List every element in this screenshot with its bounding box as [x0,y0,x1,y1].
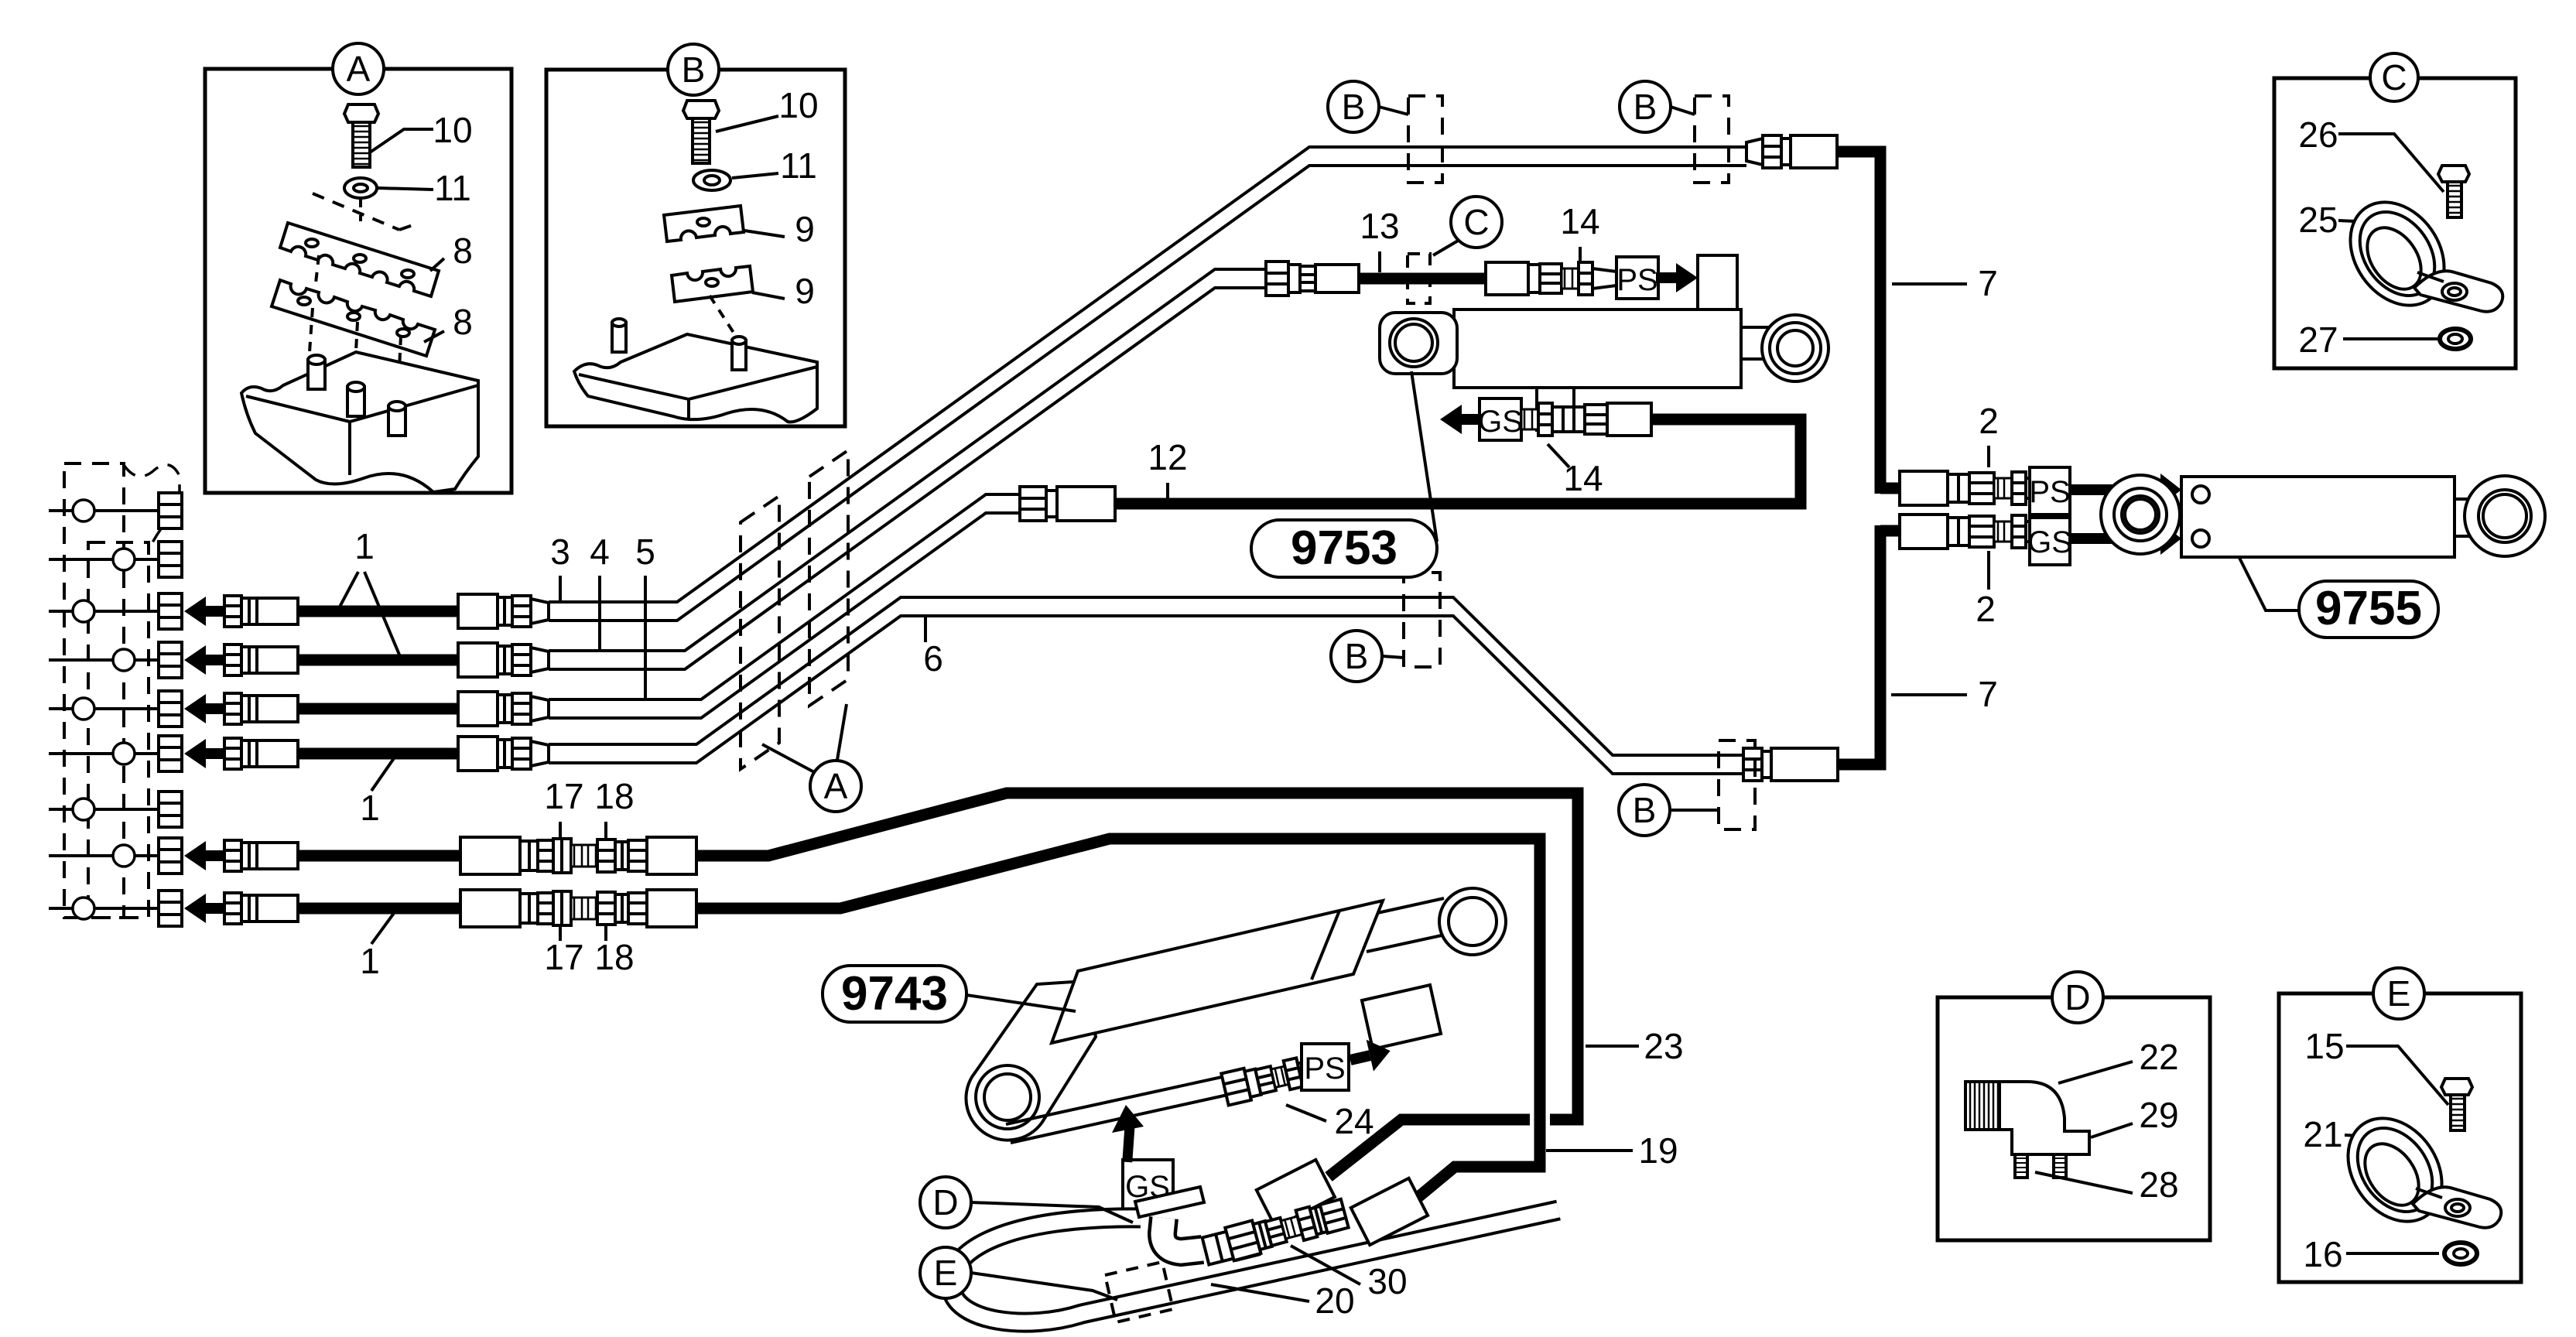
svg-text:B: B [1342,87,1366,127]
detail box B circle [668,44,719,95]
cylinder 9743 [966,888,1506,1140]
PS box 9743 [1302,1044,1349,1090]
label 27 (C) [2298,320,2437,360]
label 4 [590,532,610,651]
hose 1 assembly row3 with fittings [184,692,549,726]
label 14 lower [1548,444,1603,498]
svg-text:29: 29 [2139,1095,2178,1135]
label 7 upper [1892,263,1998,303]
svg-text:22: 22 [2139,1037,2178,1077]
svg-text:D: D [2065,977,2090,1017]
hose 12 left fitting [1020,487,1115,521]
svg-text:20: 20 [1315,1281,1354,1321]
bolt 15 (E) [2441,1079,2472,1130]
clamp 21 (E) [2328,1100,2501,1240]
svg-text:PS: PS [1304,1051,1345,1086]
mount base with studs (A) [241,352,478,492]
label 23 [1586,1026,1684,1066]
PS arrow 9753 [1656,263,1698,292]
label 17 row6 [544,925,583,977]
svg-text:25: 25 [2298,200,2338,240]
label 1 rows5-6 [360,907,399,981]
label 13 [1360,206,1399,272]
label 1 rows3-4 [360,751,399,828]
clamp 25 (C) [2331,184,2502,323]
clamp position E on tube 20 (dashed) [1105,1262,1173,1322]
detail box C circle [2370,53,2418,101]
label 8 upper (A) [430,231,473,271]
clamp half 8 lower (A) [272,280,435,356]
svg-text:11: 11 [780,145,817,186]
svg-text:E: E [934,1253,958,1293]
label 2 upper [1979,401,1999,467]
fitting 2 upper chain [1900,471,2030,505]
svg-text:18: 18 [594,937,634,977]
mount base with studs (B) [574,296,817,422]
hose assembly row5 with couplings 17/18 [184,837,696,874]
svg-text:15: 15 [2304,1026,2344,1066]
tube 4 (row2 tail to hose 13) [549,269,1266,669]
label 9 lower (B) [752,271,815,311]
bolt 10 (A) [344,104,378,167]
svg-text:9743: 9743 [841,967,948,1021]
svg-text:18: 18 [594,776,634,816]
clamp position C (dashed) [1408,254,1430,303]
detail box A frame [205,69,511,493]
cylinder 9753 [1380,255,1829,430]
PS arrow 9755 [2070,474,2181,506]
label 21 (E) [2303,1114,2376,1154]
hose 23 end socket [1257,1160,1335,1227]
label 11 (A) [378,168,471,208]
callout circle B3 [1331,631,1404,682]
PS stub corner 9755 [1880,483,1900,494]
label 15 (E) [2304,1026,2448,1105]
detail box E circle [2373,968,2424,1019]
svg-text:7: 7 [1978,263,1998,303]
elbow fitting 22 (D) [1965,1082,2089,1178]
label 1 rows1-2 [338,526,399,655]
callout circle B1 [1328,81,1408,132]
label 14 upper [1560,201,1599,261]
tube 3 (row1 tail to top line) [549,147,1746,621]
GS arrow 9755 [2070,522,2181,555]
clamp half 8 upper (A) [280,223,439,296]
hose 1 assembly row4 with fittings [184,737,549,771]
washer 11 (A) [344,178,377,198]
fitting 14 upper chain [1486,262,1616,295]
label 16 (E) [2303,1234,2439,1274]
label 9743 [823,966,1076,1022]
callout circle B2 [1620,81,1695,132]
svg-text:1: 1 [360,941,380,981]
svg-text:10: 10 [778,85,818,125]
label 9753 [1251,371,1437,577]
label 6 [923,617,943,679]
GS arrow 9743 [1112,1105,1144,1162]
hose 23 path [696,793,1578,1177]
washer 11 (B) [693,170,730,190]
clamp position B2 (dashed) [1695,96,1729,183]
hose 13 left fitting [1266,262,1359,296]
callout circle E [920,1247,1117,1300]
svg-text:17: 17 [544,776,583,816]
svg-text:23: 23 [1644,1026,1683,1066]
svg-text:C: C [1463,202,1489,242]
svg-text:GS: GS [1478,405,1523,439]
hose 1 assembly row1 with fittings [184,594,549,628]
hose 1 assembly row2 with fittings [184,643,549,677]
washer 27 (C) [2440,329,2471,349]
svg-text:4: 4 [590,532,610,572]
svg-text:B: B [682,50,706,90]
tube 20 [951,1210,1558,1322]
fitting 30 chain [1225,1178,1428,1260]
detail box B frame [546,70,845,426]
svg-text:C: C [2381,57,2407,97]
svg-text:B: B [1633,790,1657,830]
elbow fitting D at GS port [1135,1187,1259,1267]
tube 5 (row3 tail to hose 12) [549,494,1020,718]
svg-text:30: 30 [1367,1261,1407,1301]
svg-text:D: D [932,1182,958,1222]
svg-text:3: 3 [550,532,570,572]
svg-text:A: A [347,49,371,89]
label 28 (D) [2035,1164,2179,1205]
svg-text:1: 1 [360,788,380,828]
svg-text:9753: 9753 [1291,521,1397,575]
svg-text:28: 28 [2139,1164,2178,1205]
label 24 [1286,1101,1374,1141]
svg-text:17: 17 [544,937,583,977]
GS box 9753 [1478,398,1523,440]
label 5 [635,532,655,700]
GS box 9755 [2027,518,2072,565]
detail box D frame [1938,997,2210,1240]
svg-text:9: 9 [795,271,815,311]
label 11 (B) [732,145,817,186]
fitting 14 lower chain [1521,403,1651,436]
label 7 lower [1891,674,1998,714]
label 17 row5 [544,776,583,839]
callout circle A [762,704,861,812]
fitting at hose 6 end [1743,748,1838,781]
label 20 [1211,1281,1355,1321]
fitting 2 lower chain [1900,515,2030,549]
clamp half 9 lower (B) [672,266,753,302]
svg-text:PS: PS [1616,263,1657,297]
label 3 [550,532,570,603]
bolt 26 (C) [2438,166,2469,217]
callout circle C small [1433,197,1502,255]
bolt 10 (B) [683,101,719,163]
detail box D circle [2052,972,2103,1023]
svg-text:27: 27 [2298,320,2338,360]
svg-text:PS: PS [2029,475,2070,509]
label 2 lower [1976,551,1996,629]
clamp positions A (dashed) [741,450,848,769]
svg-text:10: 10 [433,110,472,150]
GS box 9743 [1123,1160,1173,1209]
svg-text:1: 1 [354,526,375,566]
svg-text:GS: GS [2027,525,2072,559]
label 18 row5 [594,776,634,839]
hose 12 thick path [1115,419,1801,504]
PS arrow 9743 [1346,1035,1394,1076]
svg-text:9755: 9755 [2315,582,2422,635]
svg-text:8: 8 [453,302,473,342]
GS stub corner 9755 [1880,525,1900,537]
clamp position B1 (dashed) [1408,96,1442,183]
svg-text:11: 11 [434,168,471,208]
fitting 24 [1221,1052,1322,1106]
detail box A circle [333,43,384,94]
svg-text:B: B [1345,636,1369,676]
label 19 [1546,1130,1678,1171]
clamp half 9 upper (B) [664,206,744,241]
label 8 lower (A) [424,302,473,342]
svg-text:8: 8 [453,231,473,271]
svg-text:12: 12 [1148,437,1187,477]
cylinder 9755 [2101,475,2545,557]
svg-text:14: 14 [1560,201,1599,241]
svg-text:24: 24 [1334,1101,1374,1141]
callout circle B4 [1619,785,1719,836]
detail box C frame [2274,78,2516,368]
label 18 row6 [594,925,634,977]
label 29 (D) [2091,1095,2179,1137]
label 25 (C) [2298,200,2372,240]
svg-text:7: 7 [1978,674,1998,714]
GS arrow 9753 [1440,405,1482,434]
tube to fitting 24 [1006,1075,1231,1143]
svg-text:14: 14 [1563,458,1603,498]
svg-text:B: B [1634,87,1657,127]
PS box 9753 [1616,257,1658,299]
label 22 (D) [2058,1037,2179,1083]
hose 7 upper thick path [1837,152,1880,494]
svg-text:26: 26 [2298,115,2338,155]
label 12 [1148,437,1187,499]
tube 6 (row4 tail, hose 6 run to fitting) [549,597,1743,774]
hose 7 lower thick path [1838,525,1880,764]
fitting at top line end [1746,135,1837,168]
label 10 (B) [716,85,819,132]
svg-text:19: 19 [1638,1130,1678,1171]
manifold valve block (dashed) with ports [49,463,182,926]
label 26 (C) [2298,115,2444,192]
svg-text:A: A [824,766,848,806]
hose 19 path [696,839,1540,1197]
label 30 [1291,1246,1408,1301]
svg-text:6: 6 [923,638,943,679]
alignment dashes (A) [310,193,415,402]
label 9 upper (B) [744,209,815,249]
svg-text:13: 13 [1360,206,1399,246]
clamp position B4 (dashed) [1719,740,1755,829]
callout circle D [920,1177,1133,1228]
svg-text:16: 16 [2303,1234,2342,1274]
hose 13 thick [1359,273,1486,285]
svg-text:E: E [2387,973,2411,1014]
label 9755 [2239,558,2438,638]
hose assembly row6 with couplings 17/18 [184,890,696,927]
svg-text:2: 2 [1976,589,1996,629]
clamp position B3 (dashed) [1404,573,1440,667]
detail box E frame [2279,993,2521,1282]
svg-text:5: 5 [635,532,655,572]
svg-text:21: 21 [2303,1114,2342,1154]
svg-text:2: 2 [1979,401,1999,441]
washer 16 (E) [2444,1243,2477,1264]
PS box 9755 [2029,467,2070,515]
svg-text:9: 9 [795,209,815,249]
label 10 (A) [370,110,473,152]
